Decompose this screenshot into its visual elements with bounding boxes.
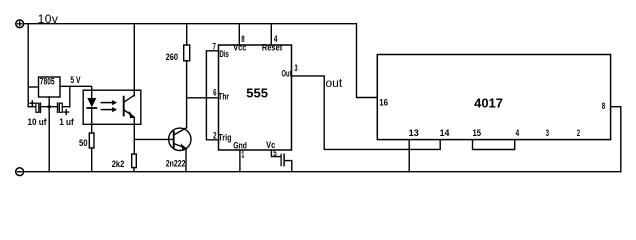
wire Reset pin 4 xyxy=(270,24,272,45)
wire Out pin 3 to 4017 clock pin 14 xyxy=(292,76,441,149)
wire Vcc pin 8 xyxy=(238,24,240,45)
svg-text:13: 13 xyxy=(409,128,419,138)
wire Dis pin 7 xyxy=(206,51,218,140)
wire input drop to 7805 xyxy=(27,24,29,107)
wire Gnd pin 1 xyxy=(239,150,241,172)
phototransistor in optocoupler xyxy=(124,24,135,154)
svg-text:Vcc: Vcc xyxy=(233,43,246,53)
wire 2k2 to ground rail xyxy=(133,168,135,172)
svg-text:1 uf: 1 uf xyxy=(59,117,75,127)
wire 4017 pin 8 to ground xyxy=(611,107,621,172)
wire between capacitors xyxy=(40,106,57,108)
svg-text:10v: 10v xyxy=(38,12,58,26)
wire Vc pin 5 and capacitor C3 xyxy=(271,150,291,172)
light arrows xyxy=(101,100,117,112)
svg-text:2: 2 xyxy=(577,128,580,138)
wire base of Q1 xyxy=(134,138,173,140)
wire C2 riser to 5V xyxy=(69,86,71,106)
svg-text:50: 50 xyxy=(79,138,88,148)
svg-text:Trig: Trig xyxy=(218,132,231,142)
svg-text:2n222: 2n222 xyxy=(166,158,186,168)
svg-text:out: out xyxy=(326,76,343,90)
svg-text:7: 7 xyxy=(213,42,216,52)
svg-text:1: 1 xyxy=(241,150,244,160)
optocoupler U3 box xyxy=(83,90,141,124)
timer U1 555 box xyxy=(219,45,292,150)
svg-text:6: 6 xyxy=(213,88,216,98)
wire 7805 ground pin down to rail xyxy=(48,97,50,172)
svg-text:4017: 4017 xyxy=(474,96,503,111)
svg-text:3: 3 xyxy=(546,128,549,138)
svg-text:Out: Out xyxy=(282,69,292,79)
wire 7805 input pin xyxy=(28,86,38,88)
node +10V terminal xyxy=(16,20,24,28)
junction dot xyxy=(48,105,51,108)
svg-text:Reset: Reset xyxy=(262,43,282,53)
resistor R1 260 xyxy=(184,45,190,61)
svg-text:15: 15 xyxy=(473,128,482,138)
wire Thr from collector node xyxy=(187,97,219,99)
svg-text:14: 14 xyxy=(440,128,450,138)
resistor R3 50 xyxy=(89,133,94,148)
svg-text:3: 3 xyxy=(294,63,297,73)
wire top +10V rail xyxy=(24,24,378,98)
svg-text:555: 555 xyxy=(246,86,268,101)
svg-text:16: 16 xyxy=(379,97,388,107)
wire 4017 pins 15-4 loop xyxy=(473,140,515,150)
wire Q1 collector up to R1 xyxy=(186,61,188,128)
counter U4 4017 box xyxy=(377,55,610,140)
svg-text:Thr: Thr xyxy=(218,91,229,101)
wire ground rail xyxy=(24,171,621,173)
svg-text:2: 2 xyxy=(213,130,216,140)
svg-text:Dis: Dis xyxy=(220,49,229,59)
resistor R2 2k2 xyxy=(132,154,137,168)
svg-text:4: 4 xyxy=(516,128,520,138)
capacitor C2 1uf xyxy=(58,103,70,114)
wire 4017 pin 13 to ground xyxy=(408,140,410,172)
svg-text:8: 8 xyxy=(602,101,605,111)
svg-text:5 V: 5 V xyxy=(70,75,80,85)
wire 260 to top rail xyxy=(186,24,188,45)
svg-text:Vc: Vc xyxy=(266,140,275,150)
svg-text:7805: 7805 xyxy=(40,76,55,86)
transistor Q1 2n222 xyxy=(169,128,191,172)
wire 50 resistor to ground rail xyxy=(91,148,93,172)
svg-text:10 uf: 10 uf xyxy=(28,117,48,127)
wire 5V line to opto LED xyxy=(60,86,92,98)
node -10V terminal xyxy=(16,168,24,176)
svg-text:Gnd: Gnd xyxy=(233,140,247,150)
capacitor C1 10uf xyxy=(28,101,40,112)
regulator U2 7805 xyxy=(39,77,61,97)
LED D1 in optocoupler xyxy=(87,98,96,133)
svg-text:260: 260 xyxy=(166,52,179,62)
svg-text:2k2: 2k2 xyxy=(112,159,125,169)
